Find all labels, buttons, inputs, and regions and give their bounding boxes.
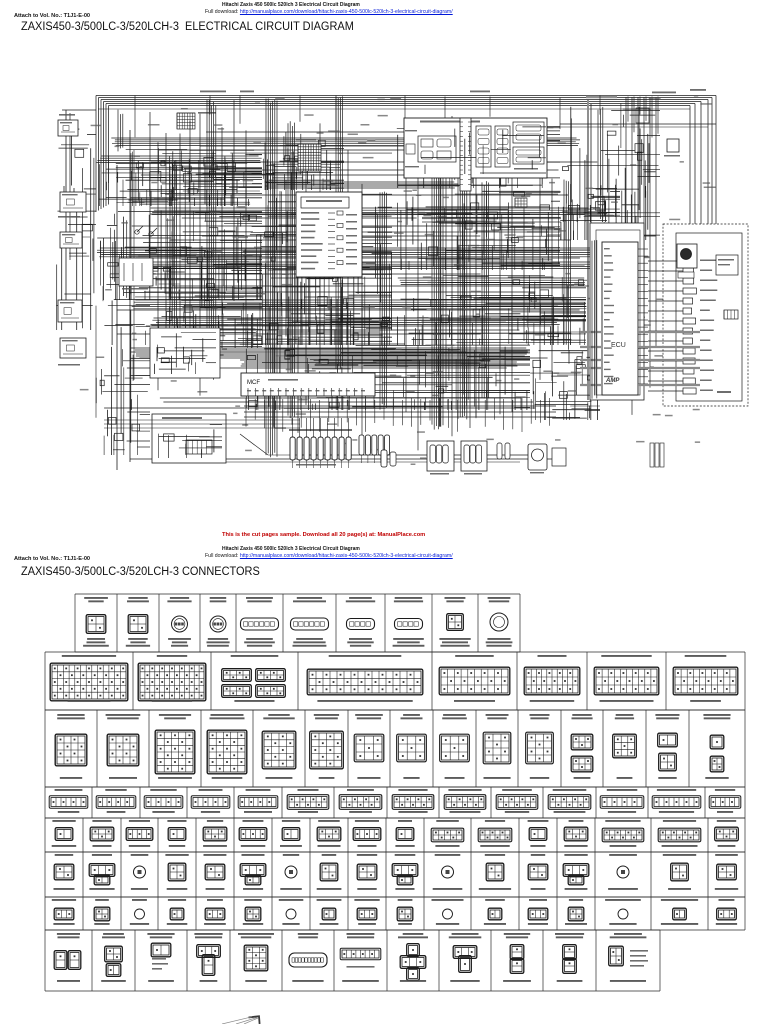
svg-text:MCF: MCF [247,380,260,386]
svg-text:ECU: ECU [611,342,626,349]
